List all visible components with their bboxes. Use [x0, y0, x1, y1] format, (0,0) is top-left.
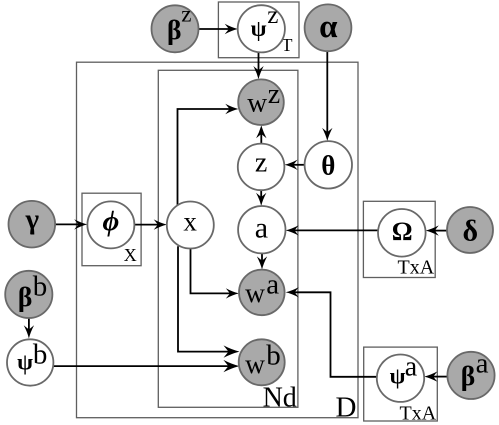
svg-text:ψ: ψ	[17, 350, 33, 375]
plate TxA (around Omega)	[363, 201, 435, 277]
wire x to w-b (down then right)	[178, 246, 230, 351]
wire x to w-a (down then right)	[191, 249, 231, 294]
node theta	[305, 141, 352, 188]
wire alpha to theta	[326, 51, 328, 133]
svg-text:z: z	[181, 2, 191, 27]
node w-a	[239, 270, 285, 316]
wire x to w-z (up then right)	[178, 109, 231, 206]
svg-text:w: w	[245, 277, 265, 308]
node gamma	[9, 201, 56, 248]
svg-text:a: a	[476, 348, 489, 380]
svg-text:b: b	[33, 339, 48, 371]
svg-text:w: w	[247, 86, 267, 117]
wire phi to x	[134, 224, 158, 226]
svg-text:Ω: Ω	[392, 217, 413, 246]
node alpha	[305, 4, 352, 51]
node w-z	[238, 79, 284, 125]
svg-text:α: α	[319, 9, 338, 45]
wire beta-a to psi-a	[433, 376, 447, 378]
svg-text:β: β	[461, 360, 476, 391]
node beta-b	[5, 271, 52, 318]
svg-text:b: b	[266, 339, 281, 371]
wire z to a (down)	[260, 190, 262, 198]
svg-text:b: b	[33, 270, 48, 302]
svg-text:β: β	[167, 14, 182, 45]
node z	[238, 144, 285, 191]
svg-text:θ: θ	[321, 151, 335, 181]
wire beta-b to psi-b	[28, 318, 30, 331]
svg-text:z: z	[267, 2, 278, 29]
svg-text:w: w	[245, 348, 265, 379]
wire psi-b to w-b	[53, 365, 230, 367]
svg-text:a: a	[266, 268, 279, 300]
plate X (around phi)	[82, 193, 141, 266]
svg-text:γ: γ	[25, 203, 40, 235]
node w-b	[239, 339, 285, 385]
svg-text:ψ: ψ	[390, 364, 406, 389]
node a	[238, 206, 285, 253]
node psi-z	[238, 5, 285, 52]
wire Omega to a	[294, 229, 378, 231]
node x	[167, 202, 214, 249]
svg-text:ϕ: ϕ	[103, 205, 120, 237]
svg-text:a: a	[405, 351, 418, 382]
plate Nd (inner)	[158, 70, 298, 407]
svg-text:Nd: Nd	[263, 382, 297, 413]
wire z to w-z (up)	[260, 133, 262, 144]
wire gamma to phi	[55, 223, 79, 225]
svg-text:X: X	[124, 245, 137, 265]
wire theta to z	[293, 164, 305, 166]
svg-text:ψ: ψ	[251, 16, 267, 41]
svg-text:TxA: TxA	[398, 257, 435, 279]
svg-text:a: a	[255, 212, 268, 245]
svg-text:z: z	[268, 79, 280, 110]
node psi-a	[377, 355, 424, 402]
node psi-b	[7, 339, 53, 385]
wire psi-a to w-a (left, up, left)	[294, 292, 377, 377]
node beta-z	[152, 5, 199, 52]
wire psi-z to w-z	[258, 52, 260, 71]
node beta-a	[447, 352, 494, 399]
svg-text:x: x	[183, 207, 197, 237]
svg-text:β: β	[18, 281, 33, 312]
plate T (around psi-z)	[218, 2, 299, 58]
svg-text:D: D	[336, 392, 357, 424]
node phi	[87, 201, 134, 248]
node Omega	[378, 209, 426, 257]
plate D (outer)	[77, 62, 359, 418]
plate TxA (around psi-a)	[364, 347, 438, 421]
wire delta to Omega	[434, 230, 447, 232]
wire a to w-a	[261, 253, 263, 261]
node delta	[447, 207, 493, 253]
wire beta-z to psi-z	[199, 28, 230, 30]
svg-text:δ: δ	[463, 214, 479, 247]
svg-text:TxA: TxA	[400, 402, 437, 424]
svg-text:z: z	[255, 147, 267, 178]
